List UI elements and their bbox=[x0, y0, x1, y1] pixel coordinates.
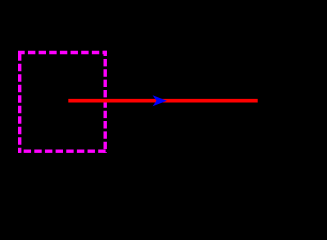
right edge bbox=[103, 51, 106, 153]
left edge bbox=[18, 51, 21, 153]
top edge bbox=[18, 51, 107, 54]
bottom edge bbox=[18, 149, 107, 152]
blue arrowhead bbox=[153, 95, 167, 106]
red line (shaft) bbox=[68, 99, 257, 103]
dashed magenta rectangle bbox=[18, 51, 107, 153]
